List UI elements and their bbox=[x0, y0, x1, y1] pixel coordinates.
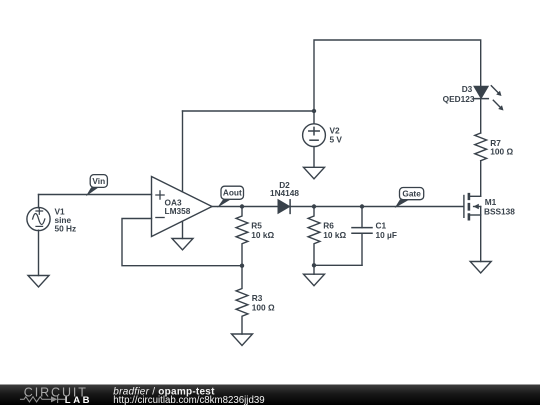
node V2 top junction bbox=[312, 109, 316, 113]
net flag Aout bbox=[217, 186, 243, 207]
svg-text:10 µF: 10 µF bbox=[376, 230, 397, 240]
node R5 bottom feedback bbox=[240, 264, 244, 268]
svg-text:Aout: Aout bbox=[223, 187, 242, 197]
svg-text:D3: D3 bbox=[462, 84, 473, 94]
wire op-amp ground stub bbox=[182, 221, 184, 238]
wire V2 junction up and top rail bbox=[314, 40, 481, 111]
node C1 top bbox=[360, 204, 364, 208]
ground under R3 bbox=[232, 334, 253, 346]
svg-text:50 Hz: 50 Hz bbox=[55, 223, 77, 233]
wire M1 source to ground bbox=[480, 207, 482, 262]
net flag Gate bbox=[395, 188, 424, 209]
net flag Vin bbox=[86, 175, 107, 197]
wire R6 to C1 bottom bbox=[314, 264, 362, 266]
wire op-amp output to diode bbox=[212, 206, 278, 208]
svg-text:10 kΩ: 10 kΩ bbox=[251, 230, 274, 240]
voltage source V1 bbox=[27, 207, 50, 230]
node R5 top bbox=[240, 204, 244, 208]
node R6 top bbox=[312, 204, 316, 208]
transistor M1 bbox=[464, 193, 481, 221]
wire R7 to drain bbox=[480, 161, 482, 197]
logo squiggle resistor and diode bbox=[21, 396, 65, 402]
diode D2 bbox=[278, 200, 290, 214]
svg-text:LAB: LAB bbox=[65, 395, 92, 405]
svg-text:Vin: Vin bbox=[92, 176, 105, 186]
op-amp minus input mark bbox=[156, 217, 164, 219]
ground under V2 bbox=[304, 167, 325, 179]
LED D3 bbox=[474, 86, 504, 111]
svg-text:Gate: Gate bbox=[402, 188, 421, 198]
wire Vin net bbox=[39, 194, 152, 196]
wire D3 to R7 bbox=[480, 99, 482, 133]
wire V2 bottom lead bbox=[313, 147, 315, 168]
svg-text:http://circuitlab.com/c8km8236: http://circuitlab.com/c8km8236jjd39 bbox=[113, 395, 264, 405]
resistor R3 bbox=[236, 266, 248, 334]
op-amp OA3 body bbox=[152, 177, 213, 237]
ground under R6 bbox=[304, 274, 325, 286]
ground under op-amp bbox=[172, 239, 193, 250]
svg-text:BSS138: BSS138 bbox=[484, 207, 515, 217]
ground under V1 bbox=[28, 276, 49, 288]
svg-text:5 V: 5 V bbox=[330, 134, 343, 144]
wire supply rail to V2 bbox=[183, 110, 315, 112]
wire minus input feedback bbox=[122, 219, 242, 266]
wire V1 top lead bbox=[38, 195, 40, 208]
voltage source V2 bbox=[303, 124, 326, 147]
svg-text:100 Ω: 100 Ω bbox=[252, 303, 275, 313]
wire ground stub R6 bbox=[313, 265, 315, 274]
svg-text:QED123: QED123 bbox=[443, 94, 475, 104]
svg-text:1N4148: 1N4148 bbox=[270, 188, 299, 198]
wire diode to gate bbox=[290, 206, 463, 208]
svg-text:R3: R3 bbox=[252, 293, 263, 303]
svg-text:10 kΩ: 10 kΩ bbox=[323, 230, 346, 240]
wire op-amp V+ riser bbox=[182, 111, 184, 192]
op-amp plus input mark bbox=[156, 191, 164, 199]
svg-text:M1: M1 bbox=[485, 197, 497, 207]
resistor R6 bbox=[308, 207, 320, 266]
wire V1 bottom lead bbox=[38, 230, 40, 275]
ground under M1 bbox=[470, 262, 491, 274]
footer brand bar bbox=[0, 385, 540, 405]
svg-text:LM358: LM358 bbox=[165, 206, 191, 216]
capacitor C1 bbox=[352, 207, 372, 266]
svg-text:100 Ω: 100 Ω bbox=[490, 147, 513, 157]
resistor R5 bbox=[236, 207, 248, 266]
resistor R7 bbox=[475, 133, 487, 161]
node R6 bottom bbox=[312, 263, 316, 267]
logo diode glyph bbox=[51, 396, 57, 402]
wire V2 top lead bbox=[313, 111, 315, 124]
